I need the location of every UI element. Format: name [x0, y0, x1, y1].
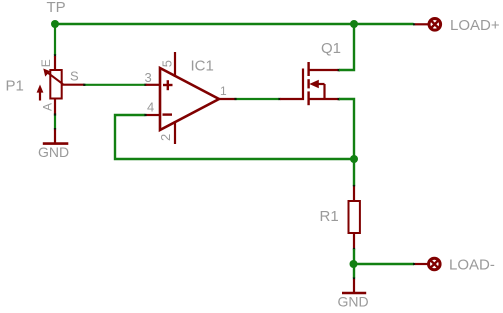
transistor Q1 (n-channel MOSFET): [280, 62, 339, 105]
wire node down to ground: [353, 264, 355, 279]
svg-text:2: 2: [158, 134, 173, 141]
pin endpoint dot Q1.D: [338, 69, 340, 71]
resistor R1: [349, 187, 360, 250]
junction bottom node: [350, 260, 358, 268]
op-amp IC1: [146, 52, 236, 144]
pin endpoint dot LOAD+: [413, 23, 415, 25]
svg-text:5: 5: [159, 60, 174, 67]
pin endpoint dot LOAD-: [413, 263, 415, 265]
svg-text:LOAD-: LOAD-: [449, 257, 495, 274]
svg-text:1: 1: [220, 84, 227, 98]
pin endpoint dot Q1.S: [338, 98, 340, 100]
pin endpoint dot IC1.3: [144, 84, 146, 86]
pin endpoint dot IC1.1: [234, 98, 236, 100]
wire TP down to P1 pin E: [54, 24, 56, 55]
potentiometer P1: [37, 56, 84, 115]
pin endpoint dot Q1.G: [278, 98, 280, 100]
pin endpoint dot R1.2: [353, 248, 355, 250]
svg-text:GND: GND: [338, 294, 369, 310]
junction feedback node: [350, 155, 358, 163]
connector LOAD-: [415, 258, 440, 270]
wire Q1 source down to feedback node: [339, 99, 354, 159]
wire top rail: [55, 23, 414, 25]
pin endpoint dot P1.E: [54, 54, 56, 56]
svg-text:A: A: [41, 103, 55, 111]
pin endpoint dot GND2: [353, 277, 355, 279]
wire bottom rail to LOAD-: [354, 263, 415, 265]
svg-text:3: 3: [145, 70, 152, 85]
junction at Q1 drain on top rail: [350, 20, 358, 28]
svg-text:LOAD+: LOAD+: [450, 17, 500, 34]
ground symbol GND (under P1): [43, 130, 69, 144]
pin endpoint dot P1.S: [83, 84, 85, 86]
wire Q1 drain to top rail: [339, 24, 354, 70]
svg-text:TP: TP: [47, 0, 66, 16]
svg-text:4: 4: [147, 100, 154, 115]
wire P1.S to IC1 pin 3: [84, 84, 146, 86]
svg-text:GND: GND: [38, 144, 69, 160]
pin endpoint dot P1.A: [54, 113, 56, 115]
pin endpoint dot GND1: [54, 128, 56, 130]
svg-text:Q1: Q1: [321, 40, 341, 57]
svg-text:E: E: [39, 59, 53, 67]
ground symbol GND (under R1): [342, 279, 366, 293]
svg-text:P1: P1: [6, 78, 24, 95]
wire feedback to IC1 pin 4: [115, 115, 354, 159]
connector LOAD+: [415, 19, 441, 31]
pin endpoint dot R1.1: [353, 185, 355, 187]
wire IC1 output to Q1 gate: [236, 98, 280, 100]
junction at TP: [51, 20, 59, 28]
svg-text:IC1: IC1: [191, 58, 214, 75]
wire R1 bottom to node: [353, 249, 355, 264]
wire P1.A to ground: [54, 115, 56, 130]
wire node to R1 top: [353, 159, 355, 186]
svg-text:R1: R1: [320, 208, 339, 225]
svg-text:S: S: [70, 69, 79, 84]
pin endpoint dot IC1.4: [144, 114, 146, 116]
